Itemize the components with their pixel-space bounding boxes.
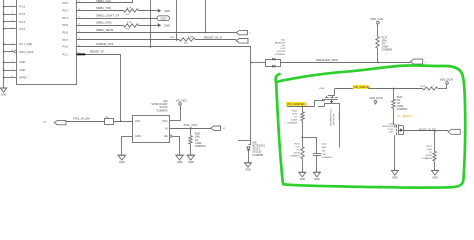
op-amp U23 labels: [151, 100, 168, 112]
svg-text:OUT: OUT: [135, 120, 141, 123]
power VDD_CAN: [370, 17, 383, 24]
wire U23 GND: [122, 136, 134, 155]
svg-text:COMMON: COMMON: [397, 109, 408, 111]
resistor R107 100k: [433, 151, 436, 161]
svg-text:COMMON: COMMON: [156, 109, 167, 112]
svg-text:COMMON: COMMON: [195, 146, 206, 148]
svg-text:1%: 1%: [429, 152, 432, 154]
wire gate Q100: [287, 100, 324, 107]
svg-text:GND: GND: [164, 9, 170, 13]
wire left ground bus: [3, 0, 5, 86]
svg-text:...: ...: [251, 41, 253, 43]
svg-text:VDD_DCIN: VDD_DCIN: [440, 77, 453, 81]
svg-text:EPAD: EPAD: [20, 76, 27, 80]
ground R106: [299, 172, 306, 181]
diode D02 labels: [275, 39, 286, 56]
svg-text:XTAL_OUT: XTAL_OUT: [184, 123, 198, 127]
svg-text:SMB1_TXD: SMB1_TXD: [96, 6, 111, 10]
diode D06 zener: [247, 140, 251, 163]
svg-text:GND: GND: [392, 176, 398, 179]
wire VDD_CAN: [377, 24, 379, 37]
no-connect oval row3: [157, 16, 170, 21]
svg-text:BOOT_IO_PS: BOOT_IO_PS: [419, 127, 436, 131]
highlight green loop: [276, 65, 466, 187]
svg-text:COMMON: COMMON: [287, 123, 298, 125]
diode D06 labels: [253, 142, 266, 156]
wire VCC: [170, 105, 181, 121]
wire R106 down: [302, 159, 304, 173]
wire net RESET_IP: [76, 50, 120, 56]
diode D02 dual: [266, 58, 281, 68]
svg-text:3V3_MCU: 3V3_MCU: [176, 100, 188, 103]
svg-text:GND: GND: [245, 168, 251, 171]
svg-text:GL_SELECT: GL_SELECT: [398, 115, 413, 118]
op-amp U23 buffer: [133, 116, 173, 143]
svg-text:4.7K: 4.7K: [127, 7, 132, 9]
svg-text:Si2343CDS P-CH: Si2343CDS P-CH: [331, 108, 333, 126]
svg-text:R15: R15: [170, 37, 175, 39]
svg-text:-20V: -20V: [389, 132, 394, 134]
wire net SMB1_SENS: [76, 28, 236, 33]
wire to GND flag row4: [139, 25, 156, 27]
svg-text:1%: 1%: [195, 140, 198, 142]
ground Q101: [391, 171, 398, 180]
svg-text:SMB1_RXD: SMB1_RXD: [96, 21, 112, 25]
svg-text:GND: GND: [300, 178, 306, 181]
resistor R19 box: [105, 117, 114, 125]
capacitor C102: [313, 137, 321, 172]
microcontroller U1: [17, 0, 77, 85]
svg-text:P-CH: P-CH: [388, 129, 394, 131]
svg-text:GND: GND: [177, 161, 183, 164]
wire vertical to row6: [176, 0, 178, 40]
resistor R108 0ohm: [420, 86, 438, 90]
svg-text:RESET_IP: RESET_IP: [90, 50, 104, 54]
tag WAKEUP: [411, 59, 426, 64]
wire EPAD pin: [3, 77, 17, 79]
svg-text:X7R: X7R: [322, 154, 327, 156]
resistor R105 labels: [397, 97, 408, 111]
pin numbers U1: [11, 1, 80, 78]
net label VDD_SAMPLED: [353, 85, 371, 89]
power flag GND row4: [155, 23, 170, 27]
resistor R105 51k: [392, 99, 395, 108]
svg-text:P0.2: P0.2: [62, 1, 68, 5]
svg-text:x: x: [462, 132, 463, 134]
ground C102: [313, 172, 320, 181]
resistor R170 100k: [376, 36, 379, 48]
wire R170 down: [377, 48, 379, 62]
svg-text:SOD123: SOD123: [253, 152, 263, 154]
wire P1.3: [3, 21, 17, 23]
wire RESET_IP vertical: [120, 54, 122, 121]
svg-text:402: 402: [184, 43, 188, 45]
svg-text:GND: GND: [20, 68, 26, 72]
net label VDD_SAMPLED_S: [286, 102, 307, 106]
svg-text:P0.5: P0.5: [62, 23, 68, 27]
wire GND pin 1: [3, 61, 17, 63]
svg-text:GND: GND: [188, 161, 194, 164]
svg-text:COMMON: COMMON: [253, 155, 264, 157]
wire vertical to row5: [205, 0, 207, 33]
tag SENS: [236, 30, 250, 34]
wire XTAL_OUT_S: [170, 123, 211, 129]
resistor R102 10.0k: [301, 112, 304, 121]
wire WAKEUP#_MCU: [281, 58, 411, 63]
svg-text:RESET_IN_N: RESET_IN_N: [204, 35, 222, 39]
svg-text:R102: R102: [292, 111, 298, 113]
svg-text:GND: GND: [1, 93, 7, 96]
svg-text:0: 0: [433, 86, 435, 88]
wire rail: [301, 137, 317, 139]
tag XTAL_OUT: [211, 126, 226, 130]
svg-text:x: x: [250, 33, 251, 35]
svg-text:51k: 51k: [397, 100, 402, 102]
resistor R106 top wire: [302, 137, 304, 146]
svg-text:COMMON: COMMON: [422, 158, 433, 160]
resistor R11 4.7K: [124, 7, 139, 16]
svg-text:VDD_CAN: VDD_CAN: [370, 17, 383, 21]
svg-text:COMMON: COMMON: [382, 50, 393, 52]
svg-text:RST_C2CK: RST_C2CK: [20, 50, 34, 54]
wire net SMB1_LIGHT_TX: [76, 13, 157, 18]
wire to VDD_DCIN tap: [438, 84, 447, 88]
ground D06: [245, 163, 252, 172]
svg-text:Dn: Dn: [282, 45, 286, 47]
wire R107 top: [434, 131, 436, 151]
svg-text:D02: D02: [281, 39, 286, 41]
resistor R12 4.7K: [124, 22, 139, 31]
svg-text:P0.6: P0.6: [62, 30, 68, 34]
svg-text:BZT52C5V1: BZT52C5V1: [253, 146, 266, 148]
svg-text:FORCE_OFF: FORCE_OFF: [96, 42, 114, 46]
svg-text:Si2301CDS: Si2301CDS: [382, 126, 393, 128]
wire vertical to row7: [150, 0, 152, 47]
wire R203 down: [190, 144, 192, 155]
svg-text:P1.0: P1.0: [62, 45, 68, 49]
svg-text:VZ=5.1: VZ=5.1: [253, 149, 261, 151]
wire XTAL_IN_SM: [66, 117, 105, 122]
svg-text:GND: GND: [314, 178, 320, 181]
svg-text:BAT54CW: BAT54CW: [275, 41, 286, 44]
power 3V3_MCU: [176, 100, 188, 106]
resistor R106 5.1k: [301, 147, 304, 159]
svg-text:1.00K: 1.00K: [188, 36, 194, 38]
svg-text:1%: 1%: [297, 149, 300, 151]
wire net SMB1_TXD: [76, 6, 123, 10]
svg-text:IN: IN: [165, 128, 168, 131]
svg-text:10nF: 10nF: [322, 147, 328, 149]
ground OE: [176, 155, 184, 164]
transistor Q100: [318, 88, 340, 110]
wire to GND flag row2: [139, 10, 156, 12]
svg-text:100k: 100k: [382, 40, 388, 42]
svg-text:P1.3: P1.3: [20, 20, 26, 24]
svg-text:GND: GND: [135, 135, 141, 138]
svg-text:VDD_SAMPLED: VDD_SAMPLED: [353, 86, 370, 89]
wire R19 to U23: [113, 121, 133, 123]
svg-text:COMMON: COMMON: [322, 157, 333, 159]
wire R203 top: [190, 128, 192, 136]
svg-text:x2: x2: [223, 128, 226, 130]
transistor Q101 labels: [382, 126, 393, 134]
wire stub node: [238, 140, 251, 142]
svg-text:Q100: Q100: [319, 88, 325, 90]
resistor R107 labels: [422, 146, 433, 160]
wire VDD_SAMPLED: [335, 88, 423, 90]
wire P1.7_C2D: [3, 43, 17, 45]
svg-text:R170: R170: [382, 37, 388, 39]
wire P1.2: [3, 28, 17, 30]
svg-text:R158: R158: [420, 86, 426, 88]
svg-text:1%: 1%: [397, 103, 400, 105]
svg-text:x: x: [425, 62, 426, 64]
resistor R203 100k: [189, 136, 192, 145]
svg-text:4.7K: 4.7K: [127, 22, 132, 24]
wire R105 down: [393, 108, 395, 123]
svg-text:GND: GND: [160, 17, 166, 20]
svg-text:SMB1_LIGHT_TX: SMB1_LIGHT_TX: [96, 13, 119, 17]
svg-text:100k: 100k: [195, 137, 201, 139]
svg-text:VDD_SAMPLED_S: VDD_SAMPLED_S: [287, 103, 308, 106]
svg-text:COMMON: COMMON: [289, 155, 300, 157]
wire RESET_IN_N to tag: [195, 35, 236, 39]
svg-text:P0.4: P0.4: [62, 16, 68, 20]
svg-text:R105: R105: [397, 97, 403, 99]
wire RST_C2CK: [3, 51, 17, 53]
net label GL_SELECT: [398, 115, 413, 118]
resistor R15 1.00K: [170, 36, 195, 44]
wire GND pin 2: [3, 69, 17, 71]
capacitor C100 line: [338, 110, 341, 148]
wire P1.5: [3, 13, 17, 15]
svg-text:P1.5: P1.5: [20, 12, 26, 16]
svg-text:GND: GND: [119, 161, 125, 164]
svg-text:R107: R107: [427, 146, 433, 148]
svg-text:1%: 1%: [294, 117, 297, 119]
ground R203: [187, 155, 195, 164]
svg-text:402: 402: [126, 14, 130, 16]
svg-text:100k: 100k: [427, 149, 433, 151]
wire WAKEUP left: [251, 62, 265, 64]
tag RESET_IN_N: [236, 39, 252, 44]
wire BOOT_IO_PS: [404, 127, 449, 132]
svg-text:P1.7_C2D: P1.7_C2D: [20, 42, 32, 46]
resistor R102 top wire: [302, 107, 304, 112]
ground R107: [431, 171, 438, 180]
transistor Q101: [389, 123, 404, 171]
wire R105 top: [393, 89, 395, 100]
svg-text:WAKEUP#_MCU: WAKEUP#_MCU: [316, 58, 338, 62]
svg-text:D06: D06: [253, 142, 258, 144]
wire net SMB1_CLK: [76, 0, 133, 3]
wire P1.6: [3, 6, 17, 8]
svg-text:GND: GND: [432, 176, 438, 179]
svg-text:P1.6: P1.6: [20, 5, 26, 9]
svg-text:VCC: VCC: [162, 120, 167, 123]
svg-text:1/16W: 1/16W: [293, 152, 300, 154]
svg-text:P1.2: P1.2: [20, 27, 26, 31]
svg-text:P0.7: P0.7: [62, 38, 68, 42]
capacitor C102 labels: [322, 144, 333, 160]
wire net FORCE_OFF: [76, 42, 251, 47]
svg-text:GND: GND: [164, 23, 170, 27]
svg-text:OE: OE: [164, 135, 168, 138]
wire FORCE_OFF down: [250, 47, 252, 140]
svg-text:P0.3: P0.3: [62, 9, 68, 13]
svg-text:16V: 16V: [322, 150, 326, 152]
svg-text:10.0k: 10.0k: [292, 114, 298, 116]
svg-text:VDD_DCIN: VDD_DCIN: [369, 96, 382, 100]
wire Q100 drain: [334, 89, 336, 96]
svg-text:GND: GND: [20, 60, 26, 64]
resistor R170 labels: [382, 37, 393, 51]
svg-text:402: 402: [126, 28, 130, 30]
svg-text:XTAL_IN_SM: XTAL_IN_SM: [73, 117, 91, 121]
wire R107 down: [434, 161, 436, 171]
svg-text:1%: 1%: [382, 44, 385, 46]
svg-text:R203: R203: [195, 134, 201, 136]
svg-text:115: 115: [43, 121, 47, 123]
wire net SMB1_RXD: [76, 21, 123, 26]
svg-text:R106: R106: [294, 143, 300, 145]
ground left bus: [0, 86, 6, 97]
svg-text:COMMON: COMMON: [275, 54, 286, 56]
power VDD_DCIN mid: [369, 96, 382, 105]
svg-text:C102: C102: [322, 144, 328, 146]
tag BOOT_IO_PS: [448, 129, 463, 134]
resistor R203 labels: [195, 134, 206, 148]
svg-text:1/16W: 1/16W: [397, 106, 404, 108]
tag XTAL_IN: [43, 120, 66, 124]
svg-text:SMB1_SENS: SMB1_SENS: [96, 28, 113, 32]
svg-text:5.1k: 5.1k: [296, 146, 301, 148]
wire R102 down: [302, 121, 304, 138]
svg-text:1/16W: 1/16W: [425, 155, 432, 157]
resistor R106 labels: [289, 143, 300, 157]
svg-text:-30V SOT23: -30V SOT23: [334, 113, 336, 126]
resistor R102 labels: [287, 111, 298, 125]
power flag GND row2: [155, 9, 170, 13]
svg-text:1/16W: 1/16W: [195, 143, 202, 145]
svg-text:P1.1: P1.1: [62, 52, 68, 56]
power VDD_DCIN right: [440, 77, 453, 84]
ground U23: [118, 155, 126, 164]
svg-text:SOT323: SOT323: [277, 51, 286, 53]
wire OE: [172, 136, 180, 155]
transistor Q100 type label: [331, 108, 336, 126]
svg-text:SMB1_CLK: SMB1_CLK: [96, 0, 111, 3]
svg-text:1/16W: 1/16W: [291, 120, 298, 122]
wire net RESET_IN_N: [76, 39, 179, 41]
svg-text:1/10W: 1/10W: [382, 47, 389, 49]
svg-text:0.23: 0.23: [281, 48, 286, 50]
